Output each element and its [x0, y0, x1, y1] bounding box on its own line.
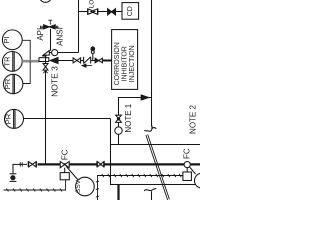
wire TR capillary — [22, 60, 39, 63]
valve injection 2 half filled — [95, 58, 99, 63]
valve SSV FC1 — [60, 162, 64, 168]
svg-text:INJECTION: INJECTION — [129, 45, 136, 82]
valve API/ANSI spec break — [48, 19, 52, 21]
flow arrow left — [84, 65, 92, 67]
wire PR upper tap — [23, 61, 30, 83]
flowline SSV thick — [38, 163, 200, 165]
svg-text:FC: FC — [61, 149, 70, 160]
instrument PI — [2, 30, 22, 50]
valve closed (filled) — [108, 9, 112, 15]
svg-text:PR: PR — [4, 113, 13, 124]
svg-text:API: API — [36, 28, 45, 41]
svg-text:NOTE 3: NOTE 3 — [50, 66, 60, 97]
injection quill rectangle — [39, 58, 49, 62]
valve LO — [87, 8, 89, 14]
node sample point dot — [92, 54, 94, 61]
choke valve — [43, 51, 49, 56]
valve NOTE 1 ball — [116, 115, 122, 118]
wire PR lower tap — [23, 118, 110, 120]
wire riser to top — [78, 0, 80, 53]
wire PI tap — [22, 40, 30, 61]
svg-text:PI: PI — [2, 36, 11, 43]
valve injection 1 — [73, 58, 77, 63]
box CD — [122, 3, 139, 20]
drain cap — [10, 173, 17, 175]
wire NOTE1 branch — [119, 98, 152, 145]
instrument PR upper — [4, 74, 23, 93]
svg-text:CD: CD — [127, 6, 134, 16]
instrument SSV — [76, 177, 95, 196]
battery limit diagonal double line — [146, 135, 168, 200]
instrument PR lower — [5, 109, 24, 128]
instrument TR — [2, 52, 22, 72]
svg-text:FC: FC — [183, 148, 192, 159]
valve SSV FC2 — [184, 162, 190, 168]
svg-text:PR: PR — [3, 78, 12, 89]
bottom heavy stub — [117, 185, 119, 201]
box corrosion inhibitor injection — [112, 30, 138, 90]
drain line left — [13, 164, 27, 173]
valve NOTE 3 hourglass — [43, 64, 48, 67]
svg-text:SSV: SSV — [75, 179, 82, 193]
signal line hydraulic right — [98, 176, 184, 201]
instrument bubble top arc — [39, 0, 52, 2]
svg-text:INHIBITOR: INHIBITOR — [122, 46, 129, 81]
wire H1 — [111, 144, 201, 146]
wire top line to CD — [79, 11, 88, 13]
svg-text:LO: LO — [88, 0, 95, 8]
main flowline vertical — [45, 55, 47, 63]
wire V2 from PR line down — [111, 119, 197, 185]
line break squiggle bottom — [144, 188, 156, 191]
wire choke to gas line — [58, 52, 79, 54]
check valve N — [83, 57, 85, 64]
line break squiggle top — [144, 126, 152, 132]
instrument SSV right (cut) — [195, 173, 210, 188]
wire injection line — [58, 60, 73, 62]
svg-text:CORROSION: CORROSION — [114, 42, 121, 85]
wire V4 bottom — [151, 191, 153, 200]
svg-text:TR: TR — [3, 56, 12, 67]
svg-text:NOTE 1: NOTE 1 — [124, 103, 133, 132]
svg-text:ANSI: ANSI — [55, 27, 64, 46]
signal line hydraulic left — [4, 180, 66, 190]
svg-text:NOTE 2: NOTE 2 — [189, 105, 198, 134]
valve block 2 on SSV line — [96, 161, 98, 167]
wire main line right V3 — [151, 0, 153, 127]
valve drain — [27, 161, 29, 167]
injection arrow — [50, 58, 58, 64]
